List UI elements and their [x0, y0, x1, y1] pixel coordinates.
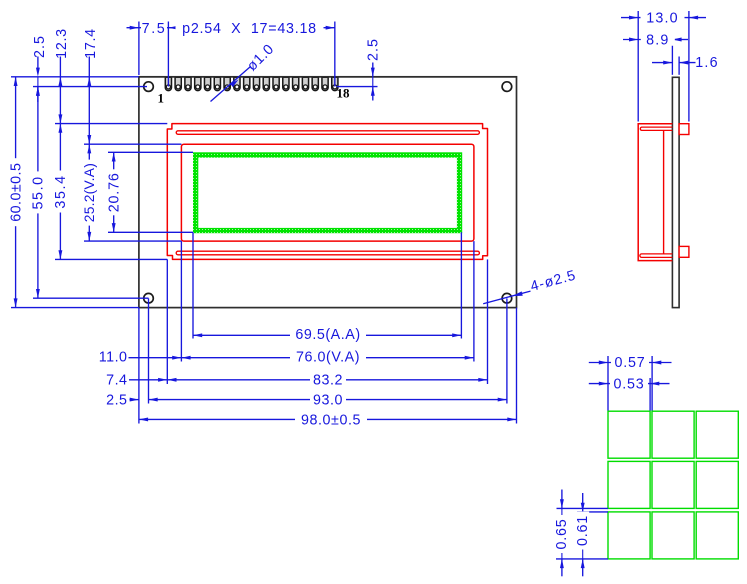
dimension 93.0 arrows	[149, 398, 158, 402]
svg-text:13.0: 13.0	[646, 11, 679, 27]
side bezel bottom seam	[640, 254, 673, 258]
dimension 25.2 line	[88, 144, 90, 241]
grid ext col2-left	[651, 356, 653, 411]
side dimension 8.9	[623, 39, 672, 41]
side dimension 13.0 text	[641, 11, 685, 24]
leader line 4-phi2.5	[483, 291, 530, 304]
dimension 7.4 line	[129, 379, 167, 381]
side ext tab-right	[688, 11, 690, 122]
extension line VA-bottom left	[84, 240, 181, 242]
PCB outline	[139, 77, 517, 308]
extension line hole-center left	[33, 86, 147, 88]
dimension 2.5 right arrow up	[371, 87, 375, 96]
svg-text:12.3: 12.3	[54, 28, 70, 59]
dimension 76.0 text	[290, 351, 366, 364]
extension line bezel-bottom left	[55, 258, 167, 260]
dimension 17.4 arrow top	[87, 77, 91, 86]
dimension 93.0 line	[149, 399, 507, 401]
mounting hole top-left	[144, 82, 154, 92]
active area A.A green band	[196, 155, 460, 231]
dimension 35.4 text	[54, 171, 67, 213]
PCB top edge over pins	[139, 76, 517, 78]
grid dimension 0.53 text	[610, 377, 648, 390]
dimension 60.0 arrow top	[14, 77, 18, 86]
svg-text:93.0: 93.0	[313, 392, 343, 408]
dimension 12.3 line	[59, 57, 61, 124]
side bezel outline	[638, 124, 672, 261]
dimension 20.76 text	[107, 169, 120, 215]
extension line pcb-bottom left	[11, 307, 139, 309]
dimension 25.2 arrow bottom	[87, 232, 91, 241]
dimension 98.0 line	[139, 418, 517, 420]
grid dimension 0.65	[561, 490, 563, 509]
side bezel top tab	[679, 124, 689, 135]
mounting hole bottom-right	[502, 293, 512, 303]
svg-text:25.2(V.A): 25.2(V.A)	[82, 163, 97, 222]
extension line hole-right bottom	[506, 298, 508, 403]
dimension 83.2 arrows	[167, 378, 176, 382]
extension line pcb-top left	[11, 76, 139, 78]
side ext pcb-left	[671, 34, 673, 75]
dimension 55.0 text	[31, 171, 44, 213]
extension line pin18 top	[334, 22, 336, 87]
dimension 35.4 line	[59, 124, 61, 260]
svg-text:55.0: 55.0	[31, 175, 47, 209]
svg-text:2.5: 2.5	[106, 392, 127, 408]
dimension 20.76 arrow top	[112, 152, 116, 161]
grid dimension 0.65 text	[555, 515, 568, 553]
dimension 2.5 bottom line	[130, 399, 139, 401]
svg-text:7.4: 7.4	[106, 373, 127, 389]
grid ext row2-bottom	[557, 507, 609, 509]
svg-text:0.57: 0.57	[614, 355, 645, 371]
pin header 18 pins	[165, 77, 338, 90]
grid dimension 0.53	[589, 383, 608, 385]
dimension 83.2 text	[310, 374, 346, 387]
svg-text:1: 1	[158, 90, 165, 105]
dimension 2.5 right arrow down	[371, 68, 375, 77]
side bezel top seam	[640, 127, 672, 130]
dimension 55.0 line	[37, 87, 39, 299]
dimension 2.5 left arrow up	[36, 87, 40, 96]
side dimension 8.9 text	[641, 33, 675, 46]
dimension 7.5 line	[127, 27, 169, 29]
side ext pcb-right	[678, 57, 680, 75]
mounting hole top-right	[502, 82, 512, 92]
svg-text:2.5: 2.5	[32, 35, 48, 58]
svg-text:20.76: 20.76	[106, 172, 122, 212]
bezel top seam slot	[176, 131, 479, 135]
svg-text:7.5: 7.5	[142, 21, 167, 37]
svg-text:60.0±0.5: 60.0±0.5	[8, 163, 24, 222]
mounting hole bottom-left	[144, 293, 154, 303]
dimension 55.0 arrow bottom	[36, 289, 40, 298]
dimension 17.4 line	[88, 57, 90, 145]
dimension 2.5 right line upper	[372, 63, 374, 77]
side view PCB bar	[672, 77, 679, 307]
dimension 69.5 arrows	[193, 333, 202, 337]
grid ext row3-top	[577, 511, 608, 513]
svg-text:17.4: 17.4	[83, 28, 99, 59]
svg-text:0.65: 0.65	[554, 518, 570, 549]
dimension 98.0 text	[295, 413, 367, 426]
dimension 60.0 line	[15, 77, 17, 308]
dimension 12.3 arrow top	[58, 77, 62, 86]
extension line AA-top left	[108, 151, 193, 153]
dimension 55.0 arrow top	[36, 87, 40, 96]
dimension 20.76 arrow bottom	[112, 223, 116, 232]
dimension 11.0 line	[129, 357, 182, 359]
svg-text:0.53: 0.53	[613, 377, 644, 393]
side bezel bottom tab	[679, 246, 689, 257]
grid dimension 0.57	[589, 362, 608, 364]
extension line pcb-right bottom	[516, 308, 518, 424]
bezel outer frame	[167, 124, 487, 260]
leader arrow 4-phi2.5	[511, 291, 522, 298]
dimension 2.5 bottom arrow	[130, 398, 139, 402]
extension line AA-left bottom	[192, 232, 194, 338]
extension line VA-top left	[84, 143, 181, 145]
svg-text:p2.54 X 17=43.18: p2.54 X 17=43.18	[182, 21, 317, 37]
dimension 12.3 arrow bottom	[58, 114, 62, 123]
dimension 25.2 arrow top	[87, 144, 91, 153]
extension line pin hole centers right	[337, 86, 378, 88]
extension line pin1 top	[167, 22, 169, 87]
extension line hole-left bottom	[148, 298, 150, 403]
svg-text:35.4: 35.4	[53, 174, 69, 208]
extension line VA-right bottom	[473, 241, 475, 361]
dimension 35.4 arrow top	[58, 124, 62, 133]
dimension 35.4 arrow bottom	[58, 250, 62, 259]
dimension 25.2 text	[83, 160, 96, 226]
dimension 98.0 arrows	[139, 417, 148, 421]
pixel grid 3x3	[608, 411, 738, 559]
grid dimension 0.61	[582, 493, 584, 512]
dimension 76.0 arrows	[181, 356, 190, 360]
leader line phi1.0	[211, 66, 251, 101]
extension line pcb-left bottom	[138, 308, 140, 424]
dimension 60.0 text	[9, 158, 22, 226]
dimension 17.4 arrow bottom	[87, 135, 91, 144]
svg-text:8.9: 8.9	[646, 33, 669, 49]
svg-text:69.5(A.A): 69.5(A.A)	[295, 327, 360, 343]
svg-text:0.61: 0.61	[575, 515, 591, 546]
extension line pcb-left top	[138, 22, 140, 76]
svg-text:2.5: 2.5	[366, 38, 382, 61]
dimension 60.0 arrow bottom	[14, 298, 18, 307]
dimension 2.5 left tail lower	[37, 87, 39, 102]
grid dimension 0.61 text	[576, 512, 589, 550]
grid ext col1-right	[649, 378, 651, 411]
dimension 2.5 left arrow down	[36, 68, 40, 77]
extension line bezel-top left	[55, 123, 167, 125]
dimension p2.54x17 text	[176, 21, 324, 34]
extension line bezel-left bottom	[166, 259, 168, 384]
svg-text:76.0(V.A): 76.0(V.A)	[296, 350, 360, 366]
dimension p2.54x17 arrow left	[168, 26, 177, 30]
dimension p2.54x17 line	[168, 27, 334, 29]
dimension 7.5 text	[141, 21, 167, 34]
svg-text:98.0±0.5: 98.0±0.5	[301, 412, 361, 428]
dimension p2.54x17 arrow right	[326, 26, 335, 30]
dimension 2.5 right tail	[372, 87, 374, 101]
grid ext row3-bottom	[556, 558, 608, 560]
dimension 93.0 text	[310, 393, 346, 406]
dimension 11.0 arrow	[172, 356, 181, 360]
dimension 69.5 text	[290, 329, 366, 342]
dimension 7.4 arrow	[158, 378, 167, 382]
dimension 76.0 line	[181, 357, 474, 359]
extension line hole-bottom left	[33, 297, 149, 299]
dimension 69.5 line	[193, 334, 461, 336]
leader arrow phi1.0	[230, 78, 239, 87]
extension line AA-bottom left	[108, 231, 193, 233]
extension line bezel-right bottom	[487, 259, 489, 384]
side dimension 1.6	[652, 62, 672, 64]
svg-text:18: 18	[337, 85, 351, 100]
viewing area V.A outline	[181, 144, 474, 241]
dimension 83.2 line	[167, 379, 487, 381]
dimension 2.5 left tail upper	[37, 57, 39, 69]
side dimension 13.0	[621, 17, 689, 19]
side ext bezel-left	[637, 11, 639, 122]
extension line AA-right bottom	[460, 232, 462, 338]
bezel bottom seam slot	[176, 251, 479, 255]
svg-text:11.0: 11.0	[99, 350, 128, 366]
dimension 2.5 left mid	[37, 77, 39, 87]
dimension 2.5 right line mid	[372, 77, 374, 87]
grid ext col1-left	[607, 356, 609, 411]
dimension 20.76 line	[113, 152, 115, 232]
extension line VA-left bottom	[180, 241, 182, 361]
grid dimension 0.57 text	[611, 356, 649, 369]
svg-text:1.6: 1.6	[695, 55, 718, 71]
dimension 7.5 arrow left	[130, 26, 139, 30]
svg-text:83.2: 83.2	[313, 373, 343, 389]
